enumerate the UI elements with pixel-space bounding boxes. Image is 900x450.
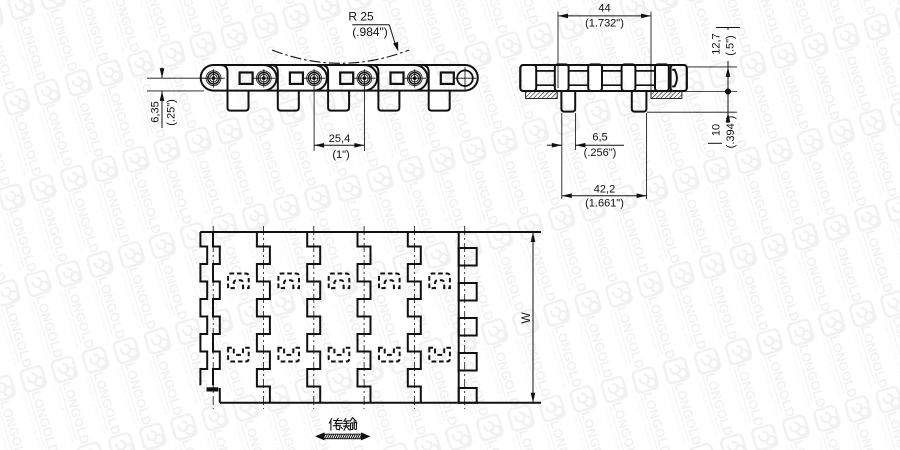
svg-text:(.25"): (.25") [166, 99, 178, 126]
svg-text:W: W [519, 312, 533, 324]
svg-text:R 25: R 25 [348, 10, 374, 24]
svg-text:(.394"): (.394") [725, 116, 737, 149]
svg-text:6,5: 6,5 [592, 132, 607, 144]
svg-text:(.5"): (.5") [725, 35, 737, 55]
svg-text:(1"): (1") [332, 149, 349, 161]
svg-text:42,2: 42,2 [594, 183, 615, 195]
svg-text:(.256"): (.256") [584, 147, 617, 159]
svg-text:10: 10 [711, 124, 723, 136]
svg-text:6,35: 6,35 [150, 101, 162, 122]
svg-text:(.984"): (.984") [352, 25, 388, 39]
svg-text:(1.732"): (1.732") [585, 18, 624, 30]
svg-text:25,4: 25,4 [329, 133, 350, 145]
svg-text:(1.661"): (1.661") [585, 198, 624, 210]
svg-text:44: 44 [598, 2, 610, 14]
svg-text:12,7: 12,7 [711, 33, 723, 54]
